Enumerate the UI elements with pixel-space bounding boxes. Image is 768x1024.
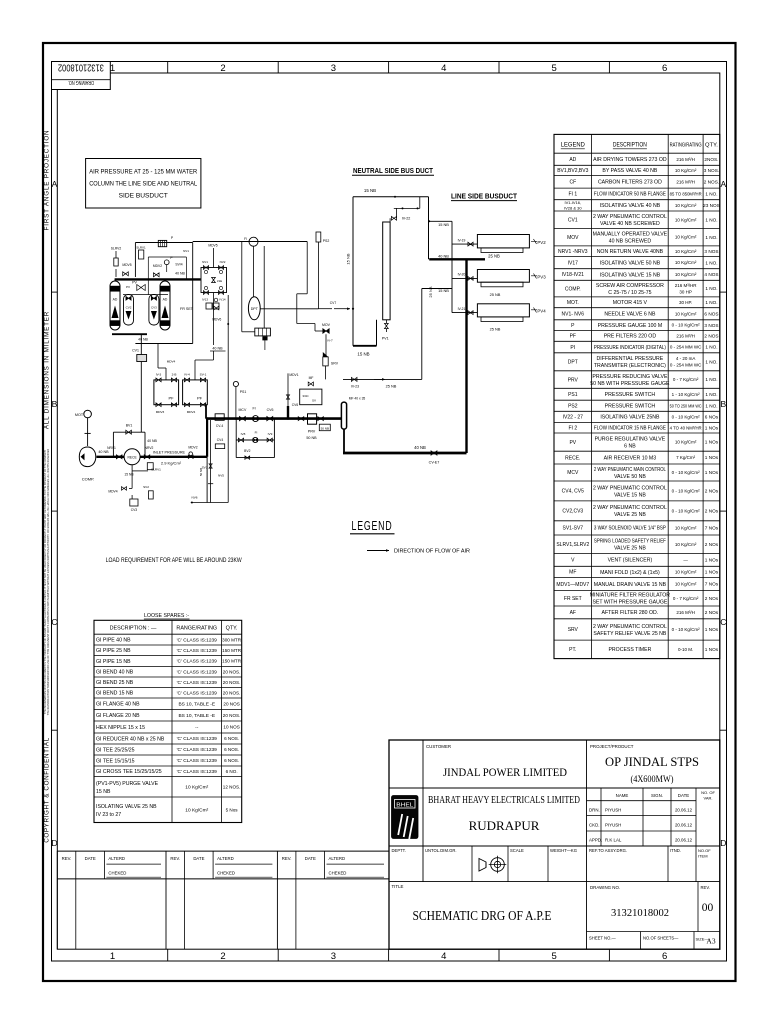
svg-text:SV: SV xyxy=(312,399,316,403)
SRV relief xyxy=(325,334,327,357)
svg-text:40 NB: 40 NB xyxy=(438,254,449,259)
svg-text:COLUMN THE LINE SIDE AND NEUTR: COLUMN THE LINE SIDE AND NEUTRAL xyxy=(89,181,197,188)
riser from compressor line to main header xyxy=(206,419,208,457)
manifold MF below DPT xyxy=(263,246,265,328)
svg-text:NV1- NV6: NV1- NV6 xyxy=(562,312,585,318)
svg-text:ISOLATING VALVE 25NB: ISOLATING VALVE 25NB xyxy=(600,415,660,421)
svg-text:PROCESS TIMER: PROCESS TIMER xyxy=(608,647,651,653)
svg-text:—: — xyxy=(683,558,688,563)
svg-text:AIR DRYING TOWERS 273 OD: AIR DRYING TOWERS 273 OD xyxy=(593,157,667,163)
svg-text:20.06.12: 20.06.12 xyxy=(675,823,693,828)
svg-text:2: 2 xyxy=(220,951,225,962)
svg-text:FLOW INDICATOR 15 NB FLANGE: FLOW INDICATOR 15 NB FLANGE xyxy=(594,426,666,432)
svg-text:0 - 10 Kg/Cm²: 0 - 10 Kg/Cm² xyxy=(672,508,701,513)
svg-text:50 NB: 50 NB xyxy=(199,468,203,476)
svg-text:10 Kg/Cm²: 10 Kg/Cm² xyxy=(675,203,697,208)
svg-text:IV22 - 27: IV22 - 27 xyxy=(563,415,584,421)
svg-text:1 NO.: 1 NO. xyxy=(705,260,717,265)
svg-text:FR SET: FR SET xyxy=(180,307,194,311)
svg-text:CV2,CV3: CV2,CV3 xyxy=(562,509,583,515)
svg-text:NV6: NV6 xyxy=(191,496,197,500)
svg-text:0-10 M.: 0-10 M. xyxy=(678,647,693,652)
svg-text:PV3: PV3 xyxy=(537,275,546,280)
svg-text:MOTOR 415 V: MOTOR 415 V xyxy=(613,300,648,306)
svg-text:CV6: CV6 xyxy=(267,408,274,412)
svg-text:SCHEMATIC DRG OF A.P.E: SCHEMATIC DRG OF A.P.E xyxy=(413,908,552,923)
svg-text:CV-4: CV-4 xyxy=(216,424,223,428)
purge loop piping 15NB xyxy=(352,197,354,346)
svg-text:25 NB: 25 NB xyxy=(490,292,501,297)
svg-text:85 TO 850M³/HR: 85 TO 850M³/HR xyxy=(670,192,703,197)
svg-text:B: B xyxy=(720,399,726,409)
svg-text:SV-1: SV-1 xyxy=(200,373,207,377)
valve block CV on header xyxy=(215,414,224,421)
svg-text:MCV: MCV xyxy=(239,408,247,412)
svg-text:30 HP.: 30 HP. xyxy=(679,300,692,305)
svg-text:COMP.: COMP. xyxy=(565,286,581,292)
svg-text:SET WITH PRESSURE GAUGE: SET WITH PRESSURE GAUGE xyxy=(592,600,667,606)
instrument air header over dryer xyxy=(193,241,308,243)
svg-text:10 Kg/Cm²: 10 Kg/Cm² xyxy=(185,784,208,790)
svg-text:10 Kg/Cm²: 10 Kg/Cm² xyxy=(675,582,697,587)
svg-text:30 HP: 30 HP xyxy=(679,289,692,294)
svg-text:4 TO 40 NM³/HR: 4 TO 40 NM³/HR xyxy=(670,425,703,430)
svg-text:1 NO.: 1 NO. xyxy=(705,286,717,291)
svg-text:PI: PI xyxy=(570,345,575,351)
svg-text:(PV1-PV5) PURGE VALVE: (PV1-PV5) PURGE VALVE xyxy=(96,781,159,787)
svg-text:IV17: IV17 xyxy=(568,260,579,266)
svg-text:RUDRAPUR: RUDRAPUR xyxy=(469,818,540,833)
svg-text:00: 00 xyxy=(702,902,714,914)
DPT transmitter xyxy=(248,297,260,320)
inner piping runs above towers xyxy=(147,257,149,295)
wire PF1 top to dryer frame xyxy=(165,368,167,380)
svg-text:MF: MF xyxy=(569,570,576,576)
svg-text:NAME: NAME xyxy=(616,793,629,798)
svg-text:1 NO.: 1 NO. xyxy=(705,403,717,408)
compressor discharge 40NB xyxy=(97,456,208,458)
svg-text:1 NO.: 1 NO. xyxy=(705,359,717,364)
svg-text:50 NB: 50 NB xyxy=(306,436,317,440)
svg-text:COPYRIGHT & CONFIDENTIAL: COPYRIGHT & CONFIDENTIAL xyxy=(43,737,50,843)
svg-text:'C' CLASS IS:1239: 'C' CLASS IS:1239 xyxy=(177,736,218,742)
svg-text:ALTERD: ALTERD xyxy=(217,856,234,861)
svg-text:PRESSURE SWITCH: PRESSURE SWITCH xyxy=(605,404,656,410)
svg-text:FIRST ANGLE PROJECTION: FIRST ANGLE PROJECTION xyxy=(43,130,50,231)
svg-text:1 NO.: 1 NO. xyxy=(705,235,717,240)
svg-text:20 NOS.: 20 NOS. xyxy=(223,713,241,718)
svg-text:FLOW INDICATOR 50 NB FLANGE: FLOW INDICATOR 50 NB FLANGE xyxy=(594,192,666,198)
svg-text:15 NB: 15 NB xyxy=(438,288,449,293)
svg-text:A: A xyxy=(52,179,58,189)
svg-text:10 Kg/Cm²: 10 Kg/Cm² xyxy=(675,217,697,222)
svg-text:7 Kg/Cm²: 7 Kg/Cm² xyxy=(676,455,696,460)
svg-text:SIGN.: SIGN. xyxy=(651,793,663,798)
svg-text:FR SET: FR SET xyxy=(564,596,582,602)
main distribution header xyxy=(207,417,342,420)
svg-text:6 NOs: 6 NOs xyxy=(705,415,719,420)
svg-text:4: 4 xyxy=(441,951,446,962)
svg-text:10 Kg/Cm²: 10 Kg/Cm² xyxy=(675,311,697,316)
busduct branch 2 with valve IV-20 xyxy=(452,277,477,279)
svg-text:RATING/RATING: RATING/RATING xyxy=(670,143,702,149)
svg-text:15 NB: 15 NB xyxy=(346,253,351,264)
svg-text:CHEKED: CHEKED xyxy=(108,871,126,876)
svg-text:50 TO 250 MM WC: 50 TO 250 MM WC xyxy=(670,403,703,408)
SLRV1 box xyxy=(139,250,144,259)
svg-text:SPRING LOADED SAFETY RELIEF: SPRING LOADED SAFETY RELIEF xyxy=(594,539,666,545)
svg-text:2 WAY PNEUMATIC CONTROL: 2 WAY PNEUMATIC CONTROL xyxy=(593,624,667,630)
svg-text:IV 23 to 27: IV 23 to 27 xyxy=(96,812,121,818)
pressure gauge P xyxy=(164,260,169,265)
svg-text:C: C xyxy=(720,617,726,627)
svg-text:C: C xyxy=(51,617,57,627)
svg-text:NV1: NV1 xyxy=(183,249,189,253)
svg-text:PRE FILTERS 220 OD: PRE FILTERS 220 OD xyxy=(604,334,657,340)
svg-text:'C' CLASS IS:1239: 'C' CLASS IS:1239 xyxy=(177,747,218,753)
svg-text:0 - 7 Kg/Cm²: 0 - 7 Kg/Cm² xyxy=(673,377,699,382)
svg-text:15 NB: 15 NB xyxy=(438,222,449,227)
svg-text:--: -- xyxy=(195,726,199,731)
svg-text:DATE: DATE xyxy=(305,856,316,861)
svg-text:0 - 7 Kg/Cm²: 0 - 7 Kg/Cm² xyxy=(673,596,699,601)
svg-text:NV5: NV5 xyxy=(218,474,224,478)
svg-text:PV1: PV1 xyxy=(382,337,389,341)
svg-text:0 - 10 Kg/Cm²: 0 - 10 Kg/Cm² xyxy=(672,489,701,494)
svg-text:2 NOS: 2 NOS xyxy=(704,334,718,339)
svg-text:ALTERD: ALTERD xyxy=(108,856,125,861)
svg-text:NRV1 -NRV3: NRV1 -NRV3 xyxy=(558,249,588,255)
svg-text:QTY.: QTY. xyxy=(226,626,238,632)
prefilter PF no.1 xyxy=(154,380,179,405)
svg-text:SAFETY RELIEF VALVE 25 NB: SAFETY RELIEF VALVE 25 NB xyxy=(593,631,666,637)
svg-text:PS1: PS1 xyxy=(240,390,247,394)
svg-text:3/4C: 3/4C xyxy=(302,394,309,398)
svg-text:0 - 254 MM WC: 0 - 254 MM WC xyxy=(670,363,702,368)
svg-text:'C' CLASS IS:1239: 'C' CLASS IS:1239 xyxy=(177,637,218,643)
svg-text:5 Nos: 5 Nos xyxy=(226,807,239,812)
svg-text:A: A xyxy=(720,179,726,189)
svg-text:QTY.: QTY. xyxy=(705,143,718,149)
wire to purge loop with arrow xyxy=(318,308,332,310)
40NB main to busducts xyxy=(429,258,485,260)
svg-text:MANUAL DRAIN VALVE 15 NB: MANUAL DRAIN VALVE 15 NB xyxy=(594,582,667,588)
svg-text:20 NOS.: 20 NOS. xyxy=(223,690,241,695)
svg-text:20 NOS.: 20 NOS. xyxy=(223,669,241,674)
svg-text:SCREW AIR COMPRESSOR: SCREW AIR COMPRESSOR xyxy=(596,283,664,289)
feed to busduct rows 15NB xyxy=(429,220,452,222)
CV3 control valve xyxy=(130,499,138,506)
svg-text:GI CROSS TEE 15/25/15/25: GI CROSS TEE 15/25/15/25 xyxy=(96,769,162,775)
svg-text:GI BEND 40 NB: GI BEND 40 NB xyxy=(96,670,134,676)
svg-text:SLRV1: SLRV1 xyxy=(136,246,146,250)
svg-text:PV2: PV2 xyxy=(537,240,546,245)
manifold box MF top xyxy=(158,240,166,246)
svg-text:10 Kg/Cm²: 10 Kg/Cm² xyxy=(675,542,697,547)
title block xyxy=(389,740,720,949)
svg-text:40 NB: 40 NB xyxy=(175,272,185,276)
svg-text:TRANSMITER (ELECTRONIC): TRANSMITER (ELECTRONIC) xyxy=(594,363,666,369)
svg-text:IV-21: IV-21 xyxy=(458,307,466,311)
svg-text:PRESSURE GAUGE 100 M: PRESSURE GAUGE 100 M xyxy=(598,323,663,329)
svg-text:2NOS.: 2NOS. xyxy=(704,157,718,162)
svg-text:FI: FI xyxy=(255,430,258,434)
svg-text:R.K LAL: R.K LAL xyxy=(605,838,622,843)
svg-text:'C' CLASS IS:1239: 'C' CLASS IS:1239 xyxy=(177,659,218,665)
svg-text:APPD.: APPD. xyxy=(589,838,602,843)
svg-text:D: D xyxy=(51,838,57,848)
svg-text:25 NB: 25 NB xyxy=(428,286,433,297)
svg-text:6: 6 xyxy=(662,951,667,962)
svg-text:50 NB WITH PRESSURE GAUGE: 50 NB WITH PRESSURE GAUGE xyxy=(590,381,670,387)
note box: air pressure note xyxy=(86,159,201,209)
svg-text:150 MTR: 150 MTR xyxy=(222,648,242,653)
tower stubs to header xyxy=(114,279,116,281)
svg-text:6 NOS: 6 NOS xyxy=(704,311,718,316)
svg-text:20.06.12: 20.06.12 xyxy=(675,838,693,843)
svg-text:BHEL: BHEL xyxy=(396,802,413,808)
svg-text:SV1-SV7: SV1-SV7 xyxy=(563,526,584,532)
sign table xyxy=(600,788,602,846)
SV2 solenoid xyxy=(149,491,154,499)
svg-text:2: 2 xyxy=(220,63,225,74)
inline filter bar xyxy=(287,406,289,419)
busduct 1 (PV2) xyxy=(477,235,529,248)
svg-text:IV-20: IV-20 xyxy=(458,273,466,277)
svg-text:IV-19: IV-19 xyxy=(458,238,466,242)
compressor COMP xyxy=(79,447,96,467)
sheet mid border xyxy=(52,62,727,962)
PS2 switch xyxy=(316,232,321,242)
svg-text:1 NO.: 1 NO. xyxy=(705,377,717,382)
svg-text:IV-3: IV-3 xyxy=(156,373,162,377)
svg-text:MF: MF xyxy=(309,376,314,380)
svg-text:OP JINDAL STPS: OP JINDAL STPS xyxy=(605,754,699,769)
svg-text:1: 1 xyxy=(110,951,115,962)
svg-text:2 WAY PNEUMATIC CONTROL: 2 WAY PNEUMATIC CONTROL xyxy=(593,214,667,220)
svg-text:GI PIPE 40 NB: GI PIPE 40 NB xyxy=(96,637,131,643)
receiver bypass loop BV1 xyxy=(112,432,114,457)
svg-text:6 NB: 6 NB xyxy=(624,443,636,449)
svg-text:7 NOs: 7 NOs xyxy=(705,582,719,587)
svg-text:CV-E7: CV-E7 xyxy=(429,461,440,465)
svg-text:LOAD REQUIREMENT FOR APE WILL: LOAD REQUIREMENT FOR APE WILL BE AROUND … xyxy=(106,558,242,564)
svg-text:DRN.: DRN. xyxy=(589,808,600,813)
svg-text:3 NOS.: 3 NOS. xyxy=(704,168,719,173)
svg-text:IV8: IV8 xyxy=(241,432,246,436)
after filter AF vertical vessel xyxy=(341,402,346,429)
svg-text:A3: A3 xyxy=(706,937,715,946)
busduct branch 1 with valve IV-19 xyxy=(452,243,477,245)
svg-text:DEPTT.: DEPTT. xyxy=(392,848,406,853)
svg-text:NV2: NV2 xyxy=(220,260,226,264)
svg-text:NO.OF: NO.OF xyxy=(698,848,711,853)
svg-text:SLRV1: SLRV1 xyxy=(151,468,161,472)
legend table xyxy=(554,134,720,658)
svg-text:2 WAY PNEUMATIC CONTROL: 2 WAY PNEUMATIC CONTROL xyxy=(593,485,667,491)
svg-text:THE REPRODUCTION TRANSMISSION: THE REPRODUCTION TRANSMISSION OR USE OF … xyxy=(47,449,50,716)
BHEL logo xyxy=(392,796,419,839)
svg-text:SV/4: SV/4 xyxy=(175,263,182,267)
svg-text:SV2: SV2 xyxy=(143,485,149,489)
svg-text:1 NO.: 1 NO. xyxy=(705,392,717,397)
SLRV2 relief valve xyxy=(115,269,117,277)
svg-text:10 Kg/Cm²: 10 Kg/Cm² xyxy=(675,570,697,575)
svg-text:AD: AD xyxy=(113,298,118,302)
svg-text:SLRV2: SLRV2 xyxy=(111,247,122,251)
svg-text:1 NOs: 1 NOs xyxy=(705,455,719,460)
svg-text:MOT: MOT xyxy=(75,413,84,417)
svg-text:PURGE REGULATING VALVE: PURGE REGULATING VALVE xyxy=(595,436,666,442)
svg-text:DPT: DPT xyxy=(251,307,259,311)
svg-text:IV28 & 30: IV28 & 30 xyxy=(564,206,582,211)
svg-text:BY PASS VALVE 40 NB: BY PASS VALVE 40 NB xyxy=(602,168,658,174)
svg-text:RECE.: RECE. xyxy=(565,455,580,461)
svg-text:150 MTR: 150 MTR xyxy=(222,659,242,664)
svg-text:12 NOS.: 12 NOS. xyxy=(223,784,241,789)
svg-text:50 NB: 50 NB xyxy=(321,426,329,430)
svg-text:4: 4 xyxy=(441,63,446,74)
svg-text:NEUTRAL SIDE BUS DUCT: NEUTRAL SIDE BUS DUCT xyxy=(353,168,434,175)
svg-text:1 NOs: 1 NOs xyxy=(705,627,719,632)
svg-text:31321018002: 31321018002 xyxy=(58,61,104,73)
MOV valve xyxy=(323,329,329,334)
svg-text:PF: PF xyxy=(197,396,203,401)
svg-text:0 - 10 Kg/Cm²: 0 - 10 Kg/Cm² xyxy=(672,415,701,420)
svg-text:VALVE 50 NB: VALVE 50 NB xyxy=(614,474,646,480)
svg-text:NV1: NV1 xyxy=(202,260,208,264)
MDV6 drain xyxy=(214,306,219,310)
svg-text:CKD.: CKD. xyxy=(589,823,600,828)
air drying tower AD no.1 xyxy=(110,281,120,330)
svg-text:CV2: CV2 xyxy=(126,306,132,310)
svg-text:DIRECTION OF FLOW OF AIR: DIRECTION OF FLOW OF AIR xyxy=(394,549,470,555)
svg-text:MANUALLY OPERATED VALVE: MANUALLY OPERATED VALVE xyxy=(593,232,668,238)
svg-text:COMP.: COMP. xyxy=(82,477,95,482)
svg-text:0 - 10 Kg/Cm²: 0 - 10 Kg/Cm² xyxy=(672,470,701,475)
svg-text:NO. OF: NO. OF xyxy=(701,790,715,795)
wire: sub header below towers xyxy=(123,294,168,296)
grid tick marks top/bottom xyxy=(167,62,169,74)
svg-text:REV.: REV. xyxy=(170,856,180,861)
svg-text:40 NB SCREWED: 40 NB SCREWED xyxy=(609,239,652,245)
grid tick marks left/right xyxy=(52,291,58,293)
svg-text:MDV2: MDV2 xyxy=(153,264,162,268)
svg-text:GI REDUCER 40 NB x 25 NB: GI REDUCER 40 NB x 25 NB xyxy=(96,736,165,742)
svg-text:1 NOs: 1 NOs xyxy=(705,647,719,652)
svg-text:SHEET NO.—: SHEET NO.— xyxy=(589,936,616,941)
main dryer outlet header 40NB xyxy=(115,278,201,280)
svg-text:3: 3 xyxy=(331,63,336,74)
svg-text:SIDE BUSDUCT: SIDE BUSDUCT xyxy=(119,193,168,200)
svg-text:25 NB: 25 NB xyxy=(488,254,500,259)
svg-text:IV-4: IV-4 xyxy=(184,373,190,377)
svg-text:'C' CLASS IS:1239: 'C' CLASS IS:1239 xyxy=(177,690,218,696)
needle valve drop NV4 xyxy=(287,373,289,406)
svg-text:JINDAL POWER LIMITED: JINDAL POWER LIMITED xyxy=(443,765,567,779)
projection symbol xyxy=(479,859,486,872)
svg-text:MDV4: MDV4 xyxy=(187,410,196,414)
svg-text:PRESSURE INDICATOR (DIGITAL): PRESSURE INDICATOR (DIGITAL) xyxy=(594,345,666,351)
svg-text:MCV: MCV xyxy=(567,470,579,476)
valve MDV5 on header xyxy=(123,272,129,276)
svg-text:DRAWING NO.: DRAWING NO. xyxy=(68,79,94,85)
svg-text:VALVE 15 NB: VALVE 15 NB xyxy=(614,492,646,498)
svg-text:10 Kg/Cm²: 10 Kg/Cm² xyxy=(675,260,697,265)
svg-text:C 25-75 / 10 25-75: C 25-75 / 10 25-75 xyxy=(608,290,651,296)
svg-text:LEGEND: LEGEND xyxy=(352,519,393,533)
svg-text:5: 5 xyxy=(552,951,557,962)
svg-text:ITEM: ITEM xyxy=(698,854,708,859)
svg-text:216 M³/H: 216 M³/H xyxy=(676,334,695,339)
svg-text:216 M³/H: 216 M³/H xyxy=(676,179,695,184)
svg-text:10 Kg/Cm²: 10 Kg/Cm² xyxy=(675,440,697,445)
busduct branch 3 with valve IV-21 xyxy=(452,312,477,314)
svg-text:0 - 10 Kg/Cm²: 0 - 10 Kg/Cm² xyxy=(672,627,701,632)
dryer enclosure frame xyxy=(134,243,136,278)
svg-text:ITND.: ITND. xyxy=(670,848,681,853)
non return valve NRV1 xyxy=(116,455,122,459)
pressure switch PS1 xyxy=(233,381,238,386)
svg-text:PIYUSH: PIYUSH xyxy=(605,808,621,813)
svg-text:GI PIPE 25 NB: GI PIPE 25 NB xyxy=(96,648,131,654)
svg-text:4 NOS: 4 NOS xyxy=(704,272,718,277)
svg-text:DPT: DPT xyxy=(568,360,578,366)
svg-text:AIR RECEIVER 10 M3: AIR RECEIVER 10 M3 xyxy=(604,455,657,461)
drawing number box (rotated 180) top-left xyxy=(52,62,111,90)
svg-text:15 NB: 15 NB xyxy=(357,352,369,357)
svg-text:216 M³/HR: 216 M³/HR xyxy=(675,283,698,288)
purge return 25NB xyxy=(343,378,422,380)
svg-text:MOV: MOV xyxy=(567,235,579,241)
svg-text:CHEKED: CHEKED xyxy=(217,871,235,876)
svg-text:BV1: BV1 xyxy=(126,424,133,428)
svg-text:2 NOs: 2 NOs xyxy=(705,489,719,494)
svg-text:PV4: PV4 xyxy=(537,309,546,314)
svg-text:0 - 254 MM WC: 0 - 254 MM WC xyxy=(670,345,702,350)
svg-text:'C' CLASS IS:1239: 'C' CLASS IS:1239 xyxy=(177,680,218,686)
svg-text:2.9 Kg/Cm²: 2.9 Kg/Cm² xyxy=(161,460,182,465)
svg-text:GI BEND 25 NB: GI BEND 25 NB xyxy=(96,680,134,686)
drain valve MDV2 xyxy=(189,452,193,456)
svg-text:IV1-IV16,: IV1-IV16, xyxy=(564,200,581,205)
svg-text:FI: FI xyxy=(244,237,247,241)
svg-text:ISOLATING VALVE 40 NB: ISOLATING VALVE 40 NB xyxy=(600,203,661,209)
svg-text:3 NOS: 3 NOS xyxy=(704,323,718,328)
purge valve PV between towers xyxy=(137,285,145,291)
svg-text:20 NOS.: 20 NOS. xyxy=(223,680,241,685)
svg-text:MDV4: MDV4 xyxy=(108,490,117,494)
inner drawing frame xyxy=(57,73,720,949)
svg-text:1 NO.: 1 NO. xyxy=(705,217,717,222)
svg-text:AD: AD xyxy=(163,298,168,302)
svg-text:1 NOs: 1 NOs xyxy=(705,558,719,563)
svg-text:PF: PF xyxy=(570,334,576,340)
svg-text:3 NOS: 3 NOS xyxy=(704,249,718,254)
svg-text:IV-22: IV-22 xyxy=(402,216,411,220)
svg-text:10 Kg/Cm²: 10 Kg/Cm² xyxy=(675,235,697,240)
isolating valve IV-5 xyxy=(267,416,273,420)
svg-text:216 M³/H: 216 M³/H xyxy=(676,157,695,162)
svg-text:ISOLATING VALVE 25 NB: ISOLATING VALVE 25 NB xyxy=(96,804,157,810)
svg-text:AF: AF xyxy=(570,610,576,616)
svg-text:3: 3 xyxy=(331,951,336,962)
svg-text:IV-23: IV-23 xyxy=(351,385,359,389)
svg-text:REV.: REV. xyxy=(282,856,292,861)
svg-text:CV1: CV1 xyxy=(132,349,139,353)
svg-text:ALL DIMENSIONS IN MILIMETER: ALL DIMENSIONS IN MILIMETER xyxy=(43,311,50,429)
svg-text:2 WAY PNEUMATIC CONTROL: 2 WAY PNEUMATIC CONTROL xyxy=(593,505,667,511)
